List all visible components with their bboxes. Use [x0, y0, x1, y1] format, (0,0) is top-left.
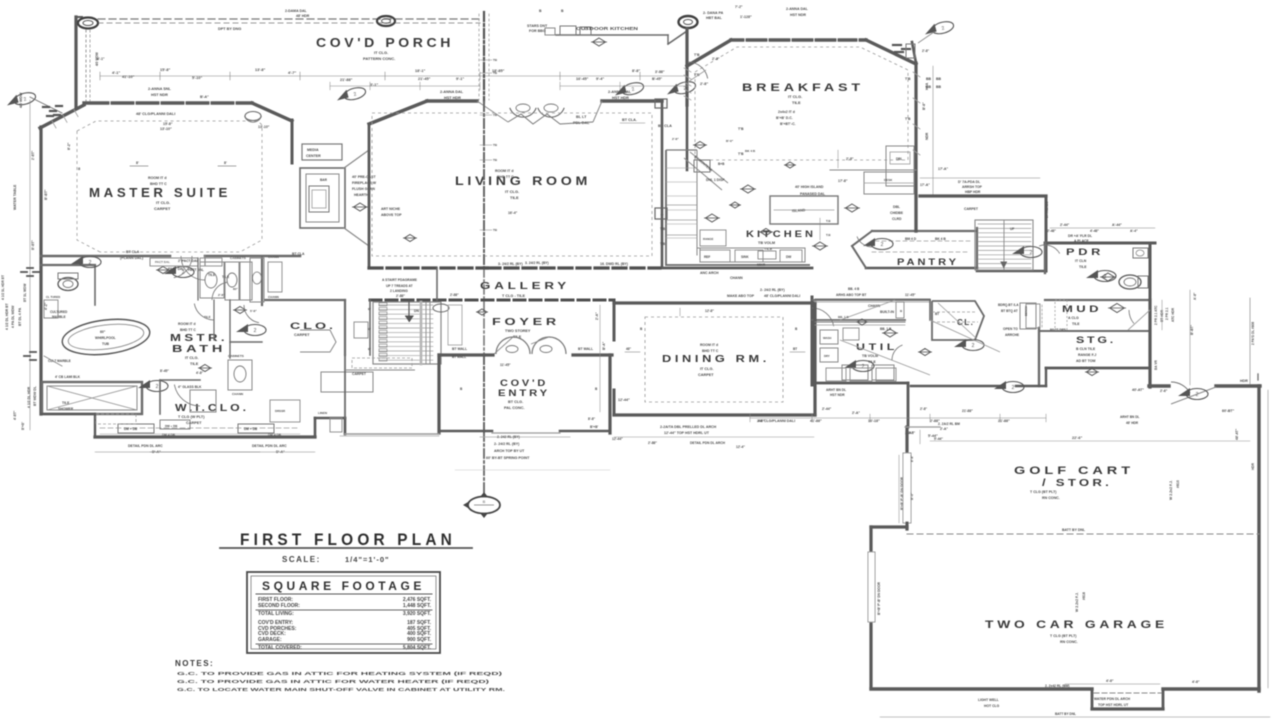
svg-text:TWO CAR GARAGE: TWO CAR GARAGE	[985, 619, 1168, 631]
svg-text:16'-4": 16'-4"	[508, 211, 518, 215]
svg-text:2-ANNA DAL: 2-ANNA DAL	[786, 7, 809, 11]
svg-text:KITCHEN: KITCHEN	[746, 229, 816, 240]
svg-text:ARHT BN DL: ARHT BN DL	[1120, 415, 1140, 419]
svg-text:41'-10": 41'-10"	[122, 75, 135, 79]
svg-text:2-DAMA DAL: 2-DAMA DAL	[285, 9, 308, 13]
svg-text:B+B: B+B	[718, 162, 725, 166]
svg-text:TILE: TILE	[1072, 322, 1080, 326]
svg-text:TOP HST HDRL UT: TOP HST HDRL UT	[1098, 703, 1129, 707]
svg-text:2- 24/2 RL (BY): 2- 24/2 RL (BY)	[760, 288, 785, 292]
svg-text:HDR: HDR	[1240, 379, 1248, 383]
svg-text:IT CLG.: IT CLG.	[505, 189, 519, 194]
svg-text:40' PRE-CAST: 40' PRE-CAST	[352, 175, 376, 179]
svg-text:2: 2	[254, 328, 257, 334]
svg-text:2. 2x42 RL (BM): 2. 2x42 RL (BM)	[1045, 684, 1070, 688]
svg-text:W 2.2x2 F.J.: W 2.2x2 F.J.	[1169, 480, 1173, 500]
svg-text:TILE: TILE	[1079, 265, 1087, 269]
svg-text:DPT BY DNG: DPT BY DNG	[218, 27, 241, 31]
svg-text:MIKR: MIKR	[757, 263, 766, 267]
svg-text:B'+B' D.C.: B'+B' D.C.	[776, 116, 793, 120]
svg-text:OPEN TO: OPEN TO	[1003, 327, 1018, 331]
svg-text:BATT BY DNL: BATT BY DNL	[1062, 528, 1086, 532]
svg-text:TILE: TILE	[510, 195, 519, 200]
svg-text:STG.: STG.	[1076, 335, 1116, 345]
svg-text:2'-1": 2'-1"	[585, 27, 593, 31]
svg-text:ISLAND: ISLAND	[792, 208, 806, 213]
svg-text:WASH: WASH	[823, 336, 831, 340]
svg-text:IT CLG.: IT CLG.	[788, 94, 802, 99]
svg-text:MSTR.: MSTR.	[170, 333, 228, 344]
svg-text:4 1/2 SL HDR BT: 4 1/2 SL HDR BT	[1, 275, 5, 300]
svg-text:REF: REF	[704, 255, 710, 259]
svg-text:CHANN: CHANN	[268, 295, 279, 299]
svg-text:CARPET: CARPET	[698, 373, 714, 377]
svg-text:2 LANDING: 2 LANDING	[390, 289, 408, 293]
svg-text:60' BY-BT SPRING POINT: 60' BY-BT SPRING POINT	[486, 456, 530, 460]
svg-text:#818: #818	[1082, 592, 1086, 600]
svg-text:2: 2	[1104, 274, 1107, 280]
svg-text:ABOVE TOP: ABOVE TOP	[381, 213, 402, 217]
svg-text:BATH: BATH	[172, 344, 226, 355]
svg-text:FOR BBG: FOR BBG	[529, 29, 546, 33]
svg-text:ROOM IT d: ROOM IT d	[148, 176, 167, 180]
svg-text:SQUARE FOOTAGE: SQUARE FOOTAGE	[262, 579, 425, 593]
svg-text:BT BTQ AT: BT BTQ AT	[1001, 309, 1018, 313]
svg-text:GALLERY: GALLERY	[480, 280, 570, 292]
svg-text:PACT DAL: PACT DAL	[168, 267, 184, 271]
svg-text:40' HIGH ISLAND: 40' HIGH ISLAND	[795, 185, 824, 189]
svg-text:4'-1": 4'-1"	[112, 71, 120, 75]
svg-text:DW: DW	[786, 255, 791, 259]
svg-text:B'-BT": B'-BT"	[44, 189, 48, 200]
svg-text:2x4x2 IT d: 2x4x2 IT d	[778, 110, 795, 114]
svg-text:BREAKFAST: BREAKFAST	[742, 82, 864, 94]
svg-text:2' PACT DAL: 2' PACT DAL	[178, 259, 199, 263]
svg-text:2: 2	[1030, 250, 1033, 256]
svg-text:B'-BT": B'-BT"	[1190, 324, 1194, 335]
svg-text:BT SL WDW: BT SL WDW	[23, 284, 27, 302]
svg-text:BUILT-IN: BUILT-IN	[880, 310, 895, 314]
svg-text:B'+B': B'+B'	[590, 425, 598, 429]
svg-text:1/4"=1'-0": 1/4"=1'-0"	[345, 555, 390, 564]
svg-text:11'-45": 11'-45"	[905, 293, 916, 297]
svg-text:11'-45": 11'-45"	[500, 363, 511, 367]
svg-text:LIGHT WELL: LIGHT WELL	[978, 698, 999, 702]
svg-text:B': B'	[368, 327, 371, 331]
svg-text:48'-AT": 48'-AT"	[1235, 428, 1239, 440]
svg-text:3,920 SQFT.: 3,920 SQFT.	[403, 611, 432, 617]
svg-text:B': B'	[368, 307, 371, 311]
svg-text:4/0 WDW: 4/0 WDW	[19, 92, 23, 108]
svg-text:LINEN: LINEN	[318, 411, 327, 415]
svg-text:FIRST FLOOR PLAN: FIRST FLOOR PLAN	[240, 531, 456, 549]
svg-text:BHD TT C: BHD TT C	[180, 328, 196, 332]
svg-text:2'-8": 2'-8"	[908, 431, 916, 435]
svg-text:A'-4": A'-4"	[1130, 229, 1138, 233]
svg-text:DM + DB: DM + DB	[124, 427, 138, 431]
svg-text:ARHT BN DL: ARHT BN DL	[826, 388, 846, 392]
svg-text:BB. 1 B: BB. 1 B	[838, 315, 850, 319]
svg-text:DM 4 DB: DM 4 DB	[268, 433, 282, 437]
svg-text:HOT CLG: HOT CLG	[984, 704, 1000, 708]
svg-text:9'-4": 9'-4"	[596, 77, 604, 81]
svg-text:FIREPLACE W: FIREPLACE W	[352, 181, 377, 185]
svg-text:CULT MARBLE: CULT MARBLE	[48, 359, 71, 363]
svg-text:12'-8": 12'-8"	[705, 309, 714, 313]
svg-text:CHANN: CHANN	[232, 392, 244, 396]
svg-text:900 SQFT.: 900 SQFT.	[407, 637, 432, 643]
svg-text:B'-8": B'-8"	[922, 102, 926, 110]
svg-text:12'-44": 12'-44"	[618, 398, 630, 402]
svg-text:BB: BB	[936, 85, 941, 89]
svg-text:2: 2	[1012, 385, 1015, 391]
svg-text:ARCH TOP BY UT: ARCH TOP BY UT	[494, 449, 525, 453]
svg-text:2'-A": 2'-A"	[940, 427, 948, 431]
svg-text:HST NDR: HST NDR	[830, 393, 845, 397]
svg-text:DRY: DRY	[824, 354, 830, 358]
svg-text:40'-AT": 40'-AT"	[1132, 388, 1144, 392]
svg-text:48' HDR: 48' HDR	[1126, 421, 1139, 425]
svg-text:T'B: T'B	[660, 227, 666, 231]
svg-text:MEDIA: MEDIA	[307, 148, 319, 152]
svg-text:BB. 4 B: BB. 4 B	[848, 287, 860, 291]
svg-text:IT CLG.: IT CLG.	[374, 50, 388, 55]
svg-text:ARRSH TOP: ARRSH TOP	[962, 185, 983, 189]
svg-text:21'-88": 21'-88"	[962, 409, 973, 413]
svg-text:T CLG (W PLT): T CLG (W PLT)	[178, 415, 205, 419]
svg-text:2: 2	[1196, 392, 1199, 398]
svg-text:3. 24/2 RL (BY): 3. 24/2 RL (BY)	[525, 261, 549, 265]
svg-text:B'-45": B'-45"	[652, 77, 662, 81]
svg-text:48' CLG/PLANNI DALI: 48' CLG/PLANNI DALI	[136, 112, 175, 116]
svg-text:4'-48": 4'-48"	[1090, 229, 1099, 233]
svg-text:2'-8": 2'-8"	[846, 157, 854, 161]
svg-text:BB: BB	[936, 77, 941, 81]
svg-text:ROOM IT d: ROOM IT d	[178, 322, 196, 326]
svg-text:T'B: T'B	[738, 152, 744, 156]
svg-text:COV'D PORCH: COV'D PORCH	[316, 36, 454, 50]
svg-text:2'-8": 2'-8"	[218, 293, 225, 297]
svg-text:BT WALL: BT WALL	[452, 355, 466, 359]
svg-text:B'-BT": B'-BT"	[31, 240, 35, 250]
svg-text:HSA: HSA	[925, 82, 929, 90]
svg-text:TB VOLM: TB VOLM	[758, 241, 775, 245]
svg-text:13'-8": 13'-8"	[255, 68, 266, 72]
svg-text:CENTER: CENTER	[306, 154, 321, 158]
svg-text:IT CLG.: IT CLG.	[185, 356, 199, 360]
svg-text:BK 4 B: BK 4 B	[745, 149, 756, 153]
svg-text:WATER PDN DL ARCH: WATER PDN DL ARCH	[1094, 697, 1131, 701]
svg-text:48' CLG/PLANNI DALI: 48' CLG/PLANNI DALI	[764, 294, 800, 298]
svg-text:2'-8": 2'-8"	[700, 82, 708, 86]
svg-text:2'-88": 2'-88"	[396, 294, 405, 298]
svg-text:2: 2	[156, 384, 159, 390]
svg-text:T'B: T'B	[905, 77, 911, 81]
svg-text:4'-1": 4'-1"	[97, 57, 105, 61]
svg-text:2'-88": 2'-88"	[450, 293, 459, 297]
svg-text:ARRCHE: ARRCHE	[1005, 333, 1020, 337]
svg-text:ATC HDR: ATC HDR	[1171, 307, 1175, 322]
svg-text:HBP HDR: HBP HDR	[965, 190, 981, 194]
svg-text:BT: BT	[935, 312, 939, 316]
svg-text:TOTAL COVERED:: TOTAL COVERED:	[258, 645, 302, 651]
svg-text:18'-1": 18'-1"	[415, 69, 426, 73]
svg-text:TB VOLM: TB VOLM	[862, 354, 878, 358]
svg-text:NDR: NDR	[925, 132, 929, 140]
svg-text:D' 7A-PDA DL: D' 7A-PDA DL	[958, 180, 980, 184]
svg-text:2'-A": 2'-A"	[852, 411, 860, 415]
svg-text:G.C. TO PROVIDE GAS IN ATTIC F: G.C. TO PROVIDE GAS IN ATTIC FOR WATER H…	[177, 679, 490, 685]
svg-text:21'-88": 21'-88"	[340, 78, 353, 82]
svg-text:IT CLN: IT CLN	[1075, 259, 1087, 263]
svg-text:4 1/2 DL HDR BT: 4 1/2 DL HDR BT	[5, 302, 9, 330]
svg-text:T'B: T'B	[660, 242, 666, 246]
svg-text:SHOWER: SHOWER	[58, 407, 74, 411]
svg-text:1,448 SQFT.: 1,448 SQFT.	[403, 603, 432, 609]
svg-text:CARPET: CARPET	[352, 372, 367, 376]
svg-text:BT DL 4 PA: BT DL 4 PA	[18, 307, 22, 326]
svg-text:RANGE: RANGE	[703, 237, 714, 241]
svg-text:TILE: TILE	[222, 275, 230, 279]
svg-text:21'-45": 21'-45"	[418, 77, 431, 81]
svg-text:MAKE ABO TOP: MAKE ABO TOP	[727, 294, 755, 298]
svg-text:2'-A": 2'-A"	[595, 312, 599, 320]
svg-text:CLRD: CLRD	[892, 217, 902, 221]
svg-text:5'-44": 5'-44"	[934, 437, 943, 441]
svg-text:RN CONC.: RN CONC.	[1042, 496, 1060, 500]
svg-text:B'+B': B'+B'	[21, 422, 25, 430]
svg-text:UTIL: UTIL	[856, 342, 898, 352]
svg-text:4'-7": 4'-7"	[288, 71, 296, 75]
svg-text:BM 4 D: BM 4 D	[905, 237, 917, 241]
svg-text:2: 2	[881, 242, 884, 248]
svg-text:BK 4 B: BK 4 B	[935, 237, 946, 241]
svg-text:BT WALL: BT WALL	[578, 347, 593, 351]
svg-text:2'-8": 2'-8"	[712, 57, 720, 61]
svg-text:A PLACE: A PLACE	[1074, 239, 1089, 243]
svg-text:B'-A": B'-A"	[602, 341, 606, 350]
svg-text:12'-44" TOP HST HDRL UT: 12'-44" TOP HST HDRL UT	[664, 431, 710, 435]
svg-text:2. 2A/2 RL BM: 2. 2A/2 RL BM	[938, 422, 960, 426]
svg-text:MUD: MUD	[1062, 304, 1102, 314]
svg-text:2'-8": 2'-8"	[672, 137, 679, 141]
svg-text:A'-8": A'-8"	[1193, 292, 1197, 300]
svg-text:2'-44": 2'-44"	[822, 407, 832, 411]
svg-text:/ STOR.: / STOR.	[1042, 477, 1112, 489]
svg-text:TILE: TILE	[190, 362, 199, 366]
svg-text:2'-48": 2'-48"	[1047, 229, 1056, 233]
svg-text:15'-8": 15'-8"	[163, 122, 173, 126]
svg-text:B'+B' P'-B' DN DOOR: B'+B' P'-B' DN DOOR	[900, 476, 904, 510]
svg-text:HST NDR: HST NDR	[151, 93, 168, 97]
svg-text:DBL: DBL	[893, 205, 900, 209]
svg-text:BT WDW DL: BT WDW DL	[33, 386, 37, 406]
svg-text:HBT BAL: HBT BAL	[706, 16, 723, 20]
svg-text:T'B: T'B	[905, 117, 911, 121]
svg-text:CABINETS: CABINETS	[230, 256, 246, 260]
svg-text:2'-88": 2'-88"	[648, 441, 657, 445]
svg-text:T CLG (BT PLT): T CLG (BT PLT)	[1050, 634, 1077, 638]
svg-text:DETAIL PDN DL ARC: DETAIL PDN DL ARC	[128, 444, 163, 448]
svg-text:5'-10": 5'-10"	[192, 76, 203, 80]
svg-text:B CLN TILE: B CLN TILE	[1076, 347, 1096, 351]
svg-text:BATT BY DNL: BATT BY DNL	[1055, 712, 1076, 716]
svg-text:60": 60"	[100, 330, 106, 334]
svg-text:4' CB LAMI BLK: 4' CB LAMI BLK	[55, 375, 81, 379]
svg-text:BT: BT	[793, 347, 797, 351]
svg-text:4'-2": 4'-2"	[44, 302, 48, 310]
svg-text:TILE: TILE	[62, 401, 70, 405]
svg-text:HEARTH: HEARTH	[354, 193, 369, 197]
svg-text:2-2A/TA DBL PRELLED DL ARCH: 2-2A/TA DBL PRELLED DL ARCH	[660, 425, 717, 429]
svg-text:TUB: TUB	[102, 342, 110, 346]
svg-text:B: B	[483, 499, 486, 504]
svg-text:ROOM IT d: ROOM IT d	[495, 169, 514, 173]
svg-text:12'-4": 12'-4"	[736, 445, 745, 449]
svg-text:4 PA DL WDW: 4 PA DL WDW	[11, 305, 15, 328]
svg-text:8'-8": 8'-8"	[632, 69, 640, 73]
svg-text:UP 7 TREADS AT: UP 7 TREADS AT	[386, 284, 413, 288]
svg-text:T CLG - TILE: T CLG - TILE	[502, 294, 525, 298]
svg-text:2: 2	[972, 343, 975, 349]
svg-text:9'-1": 9'-1"	[456, 77, 464, 81]
svg-text:BB. 1 B: BB. 1 B	[880, 327, 892, 331]
svg-text:CARPET: CARPET	[154, 206, 171, 211]
svg-text:4 1/2 DL HDR: 4 1/2 DL HDR	[27, 386, 31, 408]
svg-text:STARS DNT: STARS DNT	[527, 24, 548, 28]
svg-text:4'-8": 4'-8"	[196, 371, 204, 375]
svg-text:2: 2	[89, 260, 92, 266]
svg-text:G.C. TO PROVIDE GAS IN ATTIC F: G.C. TO PROVIDE GAS IN ATTIC FOR HEATING…	[177, 671, 503, 677]
svg-text:CARPET: CARPET	[294, 333, 310, 337]
svg-text:TILE: TILE	[792, 100, 801, 105]
svg-text:SECOND FLOOR:: SECOND FLOOR:	[258, 603, 300, 609]
svg-text:17'-8": 17'-8"	[838, 179, 848, 183]
svg-text:5'-8": 5'-8"	[250, 309, 257, 313]
svg-text:48": 48"	[626, 347, 632, 351]
svg-text:2. 242 RL (BY): 2. 242 RL (BY)	[497, 435, 520, 439]
svg-text:PAL CONC.: PAL CONC.	[504, 406, 525, 410]
svg-text:CULTURED: CULTURED	[50, 310, 68, 314]
svg-text:T'B: T'B	[738, 127, 744, 131]
svg-text:CL TURED: CL TURED	[46, 295, 60, 299]
svg-text:12'-44": 12'-44"	[612, 437, 623, 441]
svg-text:8'-8": 8'-8"	[910, 455, 914, 462]
svg-text:15'-8": 15'-8"	[160, 68, 171, 72]
svg-text:BA VR: BA VR	[1154, 360, 1158, 370]
svg-text:A'-44": A'-44"	[1112, 223, 1122, 227]
svg-text:8'-8": 8'-8"	[588, 417, 596, 421]
svg-text:2'-8": 2'-8"	[920, 407, 928, 411]
svg-text:2-ANNA DAL: 2-ANNA DAL	[440, 90, 464, 94]
svg-text:3'-88": 3'-88"	[655, 70, 665, 74]
svg-text:8': 8'	[224, 161, 227, 165]
svg-text:HST NDR: HST NDR	[790, 13, 806, 17]
svg-text:BT WALL: BT WALL	[452, 347, 467, 351]
svg-text:BDRQ.BT /LA: BDRQ.BT /LA	[998, 303, 1019, 307]
svg-text:PACT DAL: PACT DAL	[188, 268, 204, 272]
svg-text:W 2.2x2 F.J.: W 2.2x2 F.J.	[1075, 592, 1079, 612]
svg-text:B'-0": B'-0"	[910, 492, 914, 500]
svg-text:22'-6": 22'-6"	[1072, 436, 1083, 440]
svg-text:CHIDBE: CHIDBE	[890, 211, 904, 215]
svg-text:B'-A": B'-A"	[200, 95, 209, 99]
svg-text:16'-45": 16'-45"	[576, 77, 589, 81]
svg-text:2 PR 2.1: 2 PR 2.1	[1165, 307, 1169, 320]
svg-text:ENTRY: ENTRY	[498, 388, 550, 399]
svg-text:17'-A": 17'-A"	[920, 183, 930, 187]
svg-text:B': B'	[368, 347, 371, 351]
svg-text:BT CLA: BT CLA	[292, 252, 305, 256]
svg-text:PANASED DAL: PANASED DAL	[800, 192, 826, 196]
svg-text:8'-2": 8'-2"	[67, 142, 71, 150]
svg-text:WATER TABLE: WATER TABLE	[13, 184, 17, 210]
svg-text:DETAIL PDN DL ARC: DETAIL PDN DL ARC	[252, 444, 287, 448]
svg-text:TWO STOREY: TWO STOREY	[505, 329, 531, 333]
svg-text:48' CLG/PLANNI DALI: 48' CLG/PLANNI DALI	[758, 419, 795, 423]
svg-text:DESK: DESK	[884, 178, 893, 182]
svg-text:CARPET: CARPET	[186, 421, 202, 425]
svg-text:B'-0": B'-0"	[726, 139, 734, 143]
svg-text:PDR: PDR	[1066, 247, 1104, 257]
svg-text:T CLG (BT PLT): T CLG (BT PLT)	[1030, 490, 1057, 494]
svg-text:HDR: HDR	[1251, 462, 1255, 470]
svg-text:2-ANNA SNL: 2-ANNA SNL	[148, 87, 172, 91]
svg-text:SINK: SINK	[741, 255, 749, 259]
svg-text:4'-6": 4'-6"	[1192, 680, 1200, 684]
svg-text:B'+BT'-C.: B'+BT'-C.	[780, 122, 796, 126]
svg-text:RN CONC.: RN CONC.	[1060, 640, 1078, 644]
svg-text:RANGE F.J: RANGE F.J	[1078, 353, 1096, 357]
svg-text:FOYER: FOYER	[492, 316, 560, 328]
svg-text:SCALE:: SCALE:	[282, 555, 321, 564]
svg-text:PANTRY: PANTRY	[897, 257, 959, 267]
svg-text:#810: #810	[1176, 480, 1180, 488]
svg-text:2- 24/2 RL (BY): 2- 24/2 RL (BY)	[494, 442, 520, 446]
svg-text:BAR: BAR	[320, 178, 328, 182]
svg-text:16. DWD RL (BY): 16. DWD RL (BY)	[600, 262, 628, 266]
svg-text:2 PA'G DL #806: 2 PA'G DL #806	[1251, 322, 1255, 345]
svg-text:14 TREADS: 14 TREADS	[1045, 201, 1049, 218]
svg-text:BT CLA: BT CLA	[658, 124, 672, 128]
svg-text:2- DANA PA: 2- DANA PA	[703, 11, 724, 15]
svg-text:ART NICHE: ART NICHE	[381, 207, 401, 211]
svg-text:DM + DB: DM + DB	[244, 427, 258, 431]
svg-text:BT CLA: BT CLA	[126, 250, 140, 254]
svg-text:DR +A' FLR DL: DR +A' FLR DL	[1068, 234, 1092, 238]
svg-text:DRSSR: DRSSR	[275, 409, 286, 413]
svg-text:13'-10": 13'-10"	[258, 125, 270, 129]
svg-text:2 PR 2.1 ATC: 2 PR 2.1 ATC	[1154, 305, 1158, 325]
svg-text:2'-6": 2'-6"	[1160, 389, 1168, 393]
svg-text:WHIRLPOOL: WHIRLPOOL	[95, 336, 116, 340]
svg-text:2'-8": 2'-8"	[922, 49, 930, 53]
svg-text:G.C. TO LOCATE WATER MAIN SHUT: G.C. TO LOCATE WATER MAIN SHUT-OFF VALVE…	[177, 687, 505, 693]
svg-text:4'-6": 4'-6"	[1106, 679, 1114, 683]
svg-text:GARAGE:: GARAGE:	[258, 637, 282, 643]
svg-text:LIVING ROOM: LIVING ROOM	[455, 176, 591, 188]
svg-text:7'-2": 7'-2"	[735, 5, 743, 9]
svg-text:3'-1": 3'-1"	[370, 83, 378, 87]
svg-text:4" GLASS BLK: 4" GLASS BLK	[178, 385, 202, 389]
svg-text:60": 60"	[233, 287, 238, 291]
svg-text:A CLG: A CLG	[1068, 316, 1079, 320]
svg-text:2: 2	[862, 364, 865, 370]
svg-text:MASTER SUITE: MASTER SUITE	[89, 186, 231, 200]
svg-text:1'-128": 1'-128"	[740, 15, 752, 19]
svg-text:5,804 SQFT.: 5,804 SQFT.	[403, 645, 432, 651]
svg-text:13'-10": 13'-10"	[160, 127, 172, 131]
